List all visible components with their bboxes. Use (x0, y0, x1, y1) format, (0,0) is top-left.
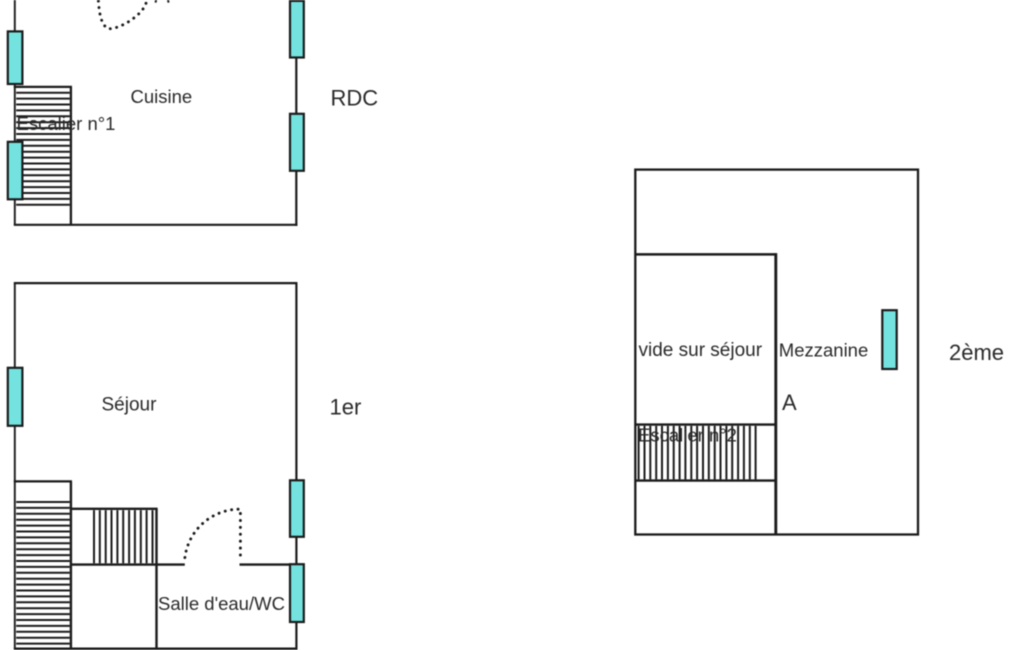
svg-text:Mezzanine: Mezzanine (779, 340, 868, 361)
svg-text:Séjour: Séjour (102, 395, 158, 416)
svg-text:Escalier n°1: Escalier n°1 (17, 113, 116, 134)
svg-text:Escalier n°2: Escalier n°2 (638, 425, 737, 446)
svg-text:2ème: 2ème (949, 340, 1004, 365)
svg-text:RDC: RDC (331, 86, 379, 111)
svg-text:Cuisine: Cuisine (131, 86, 193, 107)
svg-text:A: A (782, 390, 797, 415)
svg-text:1er: 1er (330, 395, 362, 420)
svg-text:Salle d'eau/WC: Salle d'eau/WC (158, 593, 285, 614)
svg-text:vide sur séjour: vide sur séjour (639, 340, 763, 361)
